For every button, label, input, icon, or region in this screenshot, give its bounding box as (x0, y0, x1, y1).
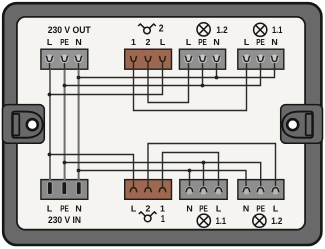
labels L PE N 230 V IN (47, 204, 82, 214)
wire L feed to switch top (50, 61, 163, 95)
svg-text:PE: PE (198, 37, 207, 47)
label 1.1 top (272, 24, 282, 35)
wire switch 1 to lamp 1.1 bottom (163, 153, 219, 189)
label 1.1 bottom (216, 215, 226, 226)
labels N PE L lamp 1.1 bottom (186, 204, 221, 214)
label 1 switch bottom (161, 214, 165, 225)
junction dot N top (77, 76, 81, 80)
wire L feed to switch bottom (50, 155, 134, 189)
svg-text:1: 1 (131, 37, 136, 47)
labels L PE N lamp 1.2 top (186, 37, 220, 47)
junction dot PE top (63, 84, 67, 88)
terminal block switch bottom (125, 180, 172, 200)
svg-text:L: L (131, 204, 137, 214)
svg-text:230 V OUT: 230 V OUT (48, 24, 91, 35)
terminal block lamp 1.1 top (238, 49, 284, 69)
wire N main vertical (78, 61, 80, 184)
svg-text:L: L (47, 37, 53, 47)
terminal block lamp 1.2 bottom (238, 180, 284, 200)
svg-text:1: 1 (161, 214, 165, 225)
svg-text:1.2: 1.2 (216, 24, 227, 35)
svg-text:L: L (160, 37, 166, 47)
clamp terminals lamp 1.2 bottom (242, 186, 279, 194)
wire switch 2 to lamp 1.2 top (148, 61, 189, 103)
slot terminals 230 V IN (48, 182, 82, 195)
enclosure interior (17, 17, 305, 230)
clamp terminals lamp 1.1 bottom (185, 186, 222, 194)
junction dot N lamp 1.2 top (215, 76, 219, 80)
junction dot L bottom (48, 153, 52, 157)
wire PE stub lamp 1.2 top (202, 61, 204, 86)
wire switch 2 to lamp 1.2 bottom (148, 144, 276, 189)
junction dot L top (48, 93, 52, 97)
svg-text:L: L (273, 204, 279, 214)
svg-text:1.1: 1.1 (272, 24, 282, 35)
svg-text:N: N (75, 204, 81, 214)
clamp terminals lamp 1.2 top (184, 55, 221, 64)
svg-text:PE: PE (60, 204, 69, 214)
label 1.2 bottom (271, 215, 282, 226)
switch symbol top (138, 24, 156, 34)
svg-text:L: L (186, 37, 192, 47)
lamp symbol 1.2 bottom (253, 214, 266, 227)
svg-text:N: N (186, 204, 192, 214)
junction dot PE bottom (63, 161, 67, 165)
wire N bus bottom (79, 171, 247, 189)
svg-text:N: N (243, 204, 249, 214)
wire switch 1 to lamp 1.1 top (134, 61, 247, 111)
lamp symbol 1.1 bottom (197, 214, 210, 227)
svg-text:230 V IN: 230 V IN (48, 214, 81, 225)
labels N PE L lamp 1.2 bottom (243, 204, 279, 214)
wire PE bus bottom (65, 163, 261, 189)
wire PE main vertical (64, 61, 66, 184)
wire N stub lamp 1.1 bottom (189, 171, 191, 189)
label 1.2 top (216, 24, 227, 35)
junction dot N lamp 1.1 bottom (188, 169, 192, 173)
svg-text:2: 2 (159, 24, 164, 35)
svg-text:PE: PE (60, 37, 69, 47)
terminal block lamp 1.1 bottom (180, 180, 227, 200)
clamp terminals lamp 1.1 top (242, 55, 279, 64)
label 230 V IN (48, 214, 81, 225)
right mounting tab (281, 105, 323, 144)
junction dot N bottom (77, 169, 81, 173)
lamp symbol 1.1 top (254, 23, 267, 36)
svg-text:L: L (216, 204, 222, 214)
labels L PE N lamp 1.1 top (244, 37, 278, 47)
svg-text:1: 1 (160, 204, 165, 214)
clamp terminals switch top (130, 56, 166, 62)
labels L PE N 230 V OUT (47, 37, 82, 47)
svg-text:1.2: 1.2 (271, 215, 282, 226)
terminal block lamp 1.2 top (179, 49, 225, 69)
terminal block 230 V IN (41, 180, 88, 200)
junction dot PE lamp 1.1 bottom (202, 161, 206, 165)
svg-text:PE: PE (256, 37, 265, 47)
svg-text:L: L (47, 204, 53, 214)
svg-text:PE: PE (199, 204, 208, 214)
label 2 switch top (159, 24, 164, 35)
wire PE stub lamp 1.1 bottom (203, 163, 205, 189)
wire L main vertical (49, 61, 52, 184)
clamp terminals switch bottom (130, 188, 166, 193)
wire N stub lamp 1.2 top (216, 61, 218, 78)
terminal block switch top (125, 49, 172, 69)
svg-text:1.1: 1.1 (216, 215, 226, 226)
svg-text:N: N (75, 37, 81, 47)
wire N bus top (79, 61, 275, 78)
label 230 V OUT (48, 24, 91, 35)
switch symbol bottom (139, 212, 157, 222)
terminal block 230 V OUT (41, 49, 88, 69)
labels 1 2 L switch top (131, 37, 166, 47)
wire PE bus top (65, 61, 261, 86)
svg-text:PE: PE (256, 204, 265, 214)
svg-text:N: N (271, 37, 277, 47)
junction dot PE lamp 1.2 top (201, 84, 205, 88)
svg-text:N: N (213, 37, 219, 47)
left mounting tab (3, 105, 45, 144)
svg-text:2: 2 (146, 37, 151, 47)
clamp terminals 230 V OUT (45, 55, 83, 64)
labels L 2 1 switch bottom (131, 204, 165, 214)
lamp symbol 1.2 top (197, 23, 210, 36)
svg-text:L: L (244, 37, 250, 47)
svg-text:2: 2 (146, 204, 151, 214)
